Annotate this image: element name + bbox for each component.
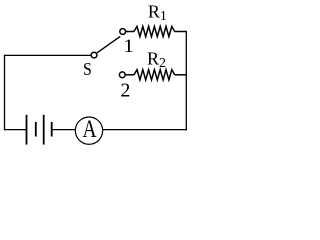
wire: top horizontal (left corner to switch pivot) [5, 54, 92, 56]
svg-text:2: 2 [120, 80, 130, 102]
node 1 (contact terminal) [120, 29, 126, 35]
svg-text:1: 1 [123, 36, 134, 56]
ammeter A [75, 115, 102, 145]
wire: bottom left (corner to battery) [4, 129, 27, 131]
resistor R1 [126, 26, 187, 36]
wire: right vertical [185, 32, 187, 131]
wire: battery to ammeter [52, 129, 75, 131]
battery B1 (two cells) [27, 115, 52, 145]
label 1 [123, 36, 134, 56]
switch S (pivot + blade toward contact 1) [91, 36, 120, 58]
wire: ammeter to bottom-right corner [103, 129, 187, 131]
svg-text:A: A [83, 115, 98, 143]
node 2 (contact terminal) [119, 72, 125, 78]
svg-text:S: S [83, 59, 92, 79]
label S [83, 59, 92, 79]
resistor R2 [125, 70, 187, 80]
wire: left vertical [4, 55, 6, 130]
